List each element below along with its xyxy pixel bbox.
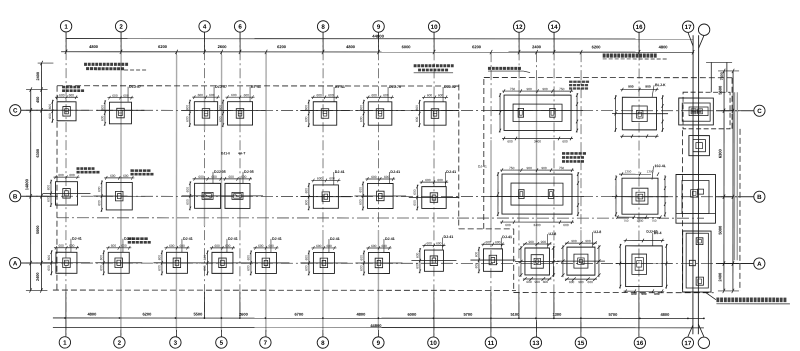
- grid bubble 6 top: [234, 21, 245, 32]
- svg-text:600: 600: [99, 265, 103, 271]
- grid bubble 1 bottom: [59, 337, 70, 348]
- svg-text:600: 600: [562, 140, 568, 144]
- svg-text:900: 900: [527, 166, 533, 170]
- footing DJ-01 grid1 row C: [44, 93, 89, 123]
- svg-text:600: 600: [426, 242, 432, 246]
- label grid10 B: [445, 170, 456, 187]
- annotation near grid1 B: [77, 167, 80, 170]
- gray double vertical right: [733, 92, 735, 260]
- horizontal grid axis lines A B C: [21, 109, 753, 112]
- svg-text:DJ-41: DJ-41: [330, 237, 340, 241]
- footing DJ-03 grid9 row C: [355, 93, 405, 127]
- label grid10 A: [442, 235, 453, 250]
- svg-text:10: 10: [430, 340, 437, 347]
- footing DJ-14 grid10 row B: [409, 178, 459, 210]
- svg-text:C: C: [757, 108, 762, 115]
- svg-text:600: 600: [436, 242, 442, 246]
- svg-text:750: 750: [510, 87, 516, 91]
- svg-text:14800: 14800: [24, 178, 29, 190]
- svg-text:5600: 5600: [718, 85, 723, 95]
- label DLJ-07 grid2 C: [128, 85, 141, 102]
- annotation near grid2 A: [128, 237, 131, 240]
- grid bubble 15 bottom: [575, 337, 586, 348]
- svg-text:DJ-41: DJ-41: [72, 237, 82, 241]
- svg-text:4: 4: [203, 24, 207, 31]
- svg-text:600: 600: [328, 93, 334, 97]
- svg-text:5000: 5000: [717, 225, 722, 235]
- svg-text:600: 600: [241, 175, 247, 179]
- svg-text:600: 600: [69, 173, 75, 177]
- svg-text:4800: 4800: [660, 312, 670, 317]
- svg-text:DLJ-07: DLJ-07: [215, 85, 227, 89]
- label grid9 B: [389, 170, 400, 183]
- svg-text:600: 600: [413, 200, 417, 206]
- svg-text:7: 7: [264, 340, 268, 347]
- svg-text:600: 600: [563, 223, 569, 227]
- svg-text:600: 600: [317, 176, 323, 180]
- svg-text:600: 600: [198, 175, 204, 179]
- footing DJ-03 grid8 row C: [300, 93, 350, 127]
- row bubble A left: [10, 257, 21, 268]
- footing DJ-16 grid16 row A: [616, 239, 673, 296]
- svg-text:600: 600: [47, 255, 51, 261]
- svg-text:DJ-41: DJ-41: [335, 170, 345, 174]
- svg-text:600: 600: [358, 199, 362, 205]
- footing grid17 row C double: [679, 98, 714, 125]
- svg-text:A: A: [757, 261, 762, 268]
- svg-text:9: 9: [377, 340, 381, 347]
- svg-text:BLJ-K: BLJ-K: [655, 83, 666, 87]
- svg-text:600: 600: [219, 105, 223, 111]
- svg-text:6000: 6000: [407, 312, 417, 317]
- svg-text:600: 600: [631, 292, 637, 296]
- combined footing SJ-12 grids12-13 row C: [492, 87, 583, 143]
- svg-text:600: 600: [425, 178, 431, 182]
- svg-text:600: 600: [326, 244, 332, 248]
- svg-text:600: 600: [358, 187, 362, 193]
- label grid16 B: [652, 164, 667, 180]
- svg-text:2400: 2400: [36, 72, 40, 80]
- svg-text:600: 600: [304, 105, 308, 111]
- svg-text:600: 600: [329, 176, 335, 180]
- svg-text:600: 600: [304, 116, 308, 122]
- annotation mid-right 3line: [562, 152, 565, 155]
- dashed boundary step right zone: [458, 85, 460, 229]
- footing DJ-14 grid9 row B: [354, 175, 406, 211]
- svg-text:5000: 5000: [36, 226, 40, 234]
- svg-text:600: 600: [48, 113, 52, 119]
- footing UJ-8 grid15 row A: [557, 239, 605, 284]
- svg-text:3400: 3400: [533, 223, 540, 227]
- svg-text:600: 600: [507, 139, 513, 143]
- footing DJ-41 grid10 row A: [411, 242, 456, 274]
- svg-text:6300: 6300: [718, 149, 723, 159]
- svg-text:600: 600: [359, 105, 363, 111]
- svg-text:600: 600: [359, 265, 363, 271]
- svg-text:DJ-41: DJ-41: [446, 170, 456, 174]
- svg-text:600: 600: [157, 265, 161, 271]
- dashed boundary outline left block: [57, 85, 459, 87]
- svg-text:600: 600: [371, 244, 377, 248]
- svg-text:600: 600: [316, 93, 322, 97]
- svg-text:600: 600: [121, 244, 127, 248]
- svg-text:600: 600: [438, 93, 444, 97]
- top dimension line total: [66, 38, 693, 40]
- svg-text:600: 600: [198, 93, 204, 97]
- svg-text:4800: 4800: [89, 44, 99, 49]
- intermediate axis line between B and A: [57, 217, 704, 219]
- svg-text:13: 13: [532, 340, 539, 347]
- label grid15 A: [592, 230, 601, 247]
- svg-text:600: 600: [58, 244, 64, 248]
- svg-text:600: 600: [526, 280, 532, 284]
- footing DJ-13 grid4 row B: [182, 175, 234, 211]
- svg-text:600: 600: [543, 280, 549, 284]
- svg-text:17: 17: [685, 24, 692, 31]
- svg-text:600: 600: [371, 93, 377, 97]
- svg-text:600: 600: [505, 223, 511, 227]
- svg-text:2400: 2400: [36, 273, 40, 281]
- label DJJ-02 grid10 C: [443, 85, 456, 102]
- label DLJ-07 grid4 C: [214, 85, 227, 102]
- dashed box around grid17 C: [683, 92, 730, 129]
- svg-text:2600: 2600: [239, 312, 249, 317]
- svg-text:600: 600: [371, 175, 377, 179]
- svg-text:600: 600: [186, 199, 190, 205]
- svg-text:600: 600: [588, 280, 594, 284]
- footing DJ-03 grid6 row C: [215, 93, 266, 127]
- svg-text:A: A: [13, 260, 18, 267]
- svg-text:600: 600: [268, 244, 274, 248]
- svg-text:10: 10: [431, 24, 438, 31]
- annotation top right bold: [603, 53, 606, 57]
- svg-text:600: 600: [474, 263, 478, 269]
- svg-text:2: 2: [119, 24, 123, 31]
- svg-text:600: 600: [110, 174, 116, 178]
- grid bubble 3 bottom: [170, 337, 181, 348]
- svg-text:2600: 2600: [218, 44, 228, 49]
- svg-text:900: 900: [571, 239, 577, 243]
- svg-text:600: 600: [97, 186, 101, 192]
- svg-text:DJ-41: DJ-41: [502, 235, 512, 239]
- svg-text:DJ-05: DJ-05: [244, 170, 254, 174]
- svg-text:6200: 6200: [158, 44, 168, 49]
- grid bubble blank bottom: [698, 337, 709, 348]
- svg-text:600: 600: [219, 116, 223, 122]
- svg-text:900: 900: [541, 240, 547, 244]
- small annotation grid1 C: [62, 86, 65, 89]
- thick gray axis overlays: [120, 55, 122, 330]
- svg-text:600: 600: [59, 93, 65, 97]
- grid bubble 10 bottom: [428, 337, 439, 348]
- svg-text:600: 600: [246, 255, 250, 261]
- svg-text:600: 600: [211, 175, 217, 179]
- svg-text:7400: 7400: [720, 72, 724, 80]
- svg-text:14: 14: [551, 24, 558, 31]
- svg-text:600: 600: [69, 244, 75, 248]
- svg-text:600: 600: [100, 105, 104, 111]
- svg-text:6200: 6200: [592, 44, 602, 49]
- svg-text:1: 1: [64, 24, 68, 31]
- svg-text:600: 600: [244, 93, 250, 97]
- svg-text:DLJ-70: DLJ-70: [389, 85, 401, 89]
- svg-text:600: 600: [415, 116, 419, 122]
- svg-text:DLJ-07: DLJ-07: [129, 85, 141, 89]
- svg-text:600: 600: [97, 200, 101, 206]
- svg-text:900: 900: [641, 292, 647, 296]
- svg-text:1350: 1350: [625, 169, 632, 173]
- svg-text:6000: 6000: [402, 44, 412, 49]
- svg-text:600: 600: [58, 173, 64, 177]
- annotation right of C combined footing: [569, 81, 572, 83]
- bottom dimension line segments: [53, 317, 704, 319]
- svg-text:3400: 3400: [534, 139, 541, 143]
- svg-text:600: 600: [569, 280, 575, 284]
- svg-text:600: 600: [359, 255, 363, 261]
- right total dim line: [732, 71, 734, 291]
- svg-text:600: 600: [316, 244, 322, 248]
- grid bubble 2 bottom: [114, 337, 125, 348]
- annotation mid 2: [488, 67, 491, 70]
- grid bubble 8 top: [317, 21, 328, 32]
- svg-text:600: 600: [225, 244, 231, 248]
- row bubble B right: [754, 191, 765, 202]
- svg-text:600: 600: [169, 244, 175, 248]
- svg-text:BT-41: BT-41: [335, 85, 345, 89]
- svg-text:600: 600: [427, 93, 433, 97]
- row bubble B left: [10, 191, 21, 202]
- svg-text:750: 750: [623, 219, 628, 223]
- svg-text:4800: 4800: [659, 44, 669, 49]
- svg-text:600: 600: [258, 244, 264, 248]
- svg-text:600: 600: [229, 175, 235, 179]
- footing grid17 row B double: [676, 174, 716, 223]
- grid bubble 10 top: [428, 21, 439, 32]
- grid bubble 1 top: [60, 21, 71, 32]
- svg-text:16: 16: [636, 340, 643, 347]
- svg-text:4800: 4800: [346, 44, 356, 49]
- svg-text:600: 600: [47, 265, 51, 271]
- svg-text:600: 600: [381, 244, 387, 248]
- svg-text:450: 450: [36, 97, 40, 103]
- svg-text:1: 1: [63, 340, 67, 347]
- right segment dim line: [723, 71, 725, 291]
- svg-text:900: 900: [585, 239, 591, 243]
- svg-text:600: 600: [231, 93, 237, 97]
- svg-text:600: 600: [359, 116, 363, 122]
- row bubble A right: [754, 258, 765, 269]
- svg-text:900: 900: [578, 280, 584, 284]
- svg-text:44800: 44800: [370, 323, 382, 328]
- svg-text:900: 900: [528, 240, 534, 244]
- svg-text:2400: 2400: [532, 44, 542, 49]
- svg-text:5500: 5500: [193, 312, 203, 317]
- label DJJ-05 grid4 B: [213, 170, 226, 183]
- svg-text:4800: 4800: [356, 312, 366, 317]
- left total dim line: [30, 90, 32, 291]
- svg-text:600: 600: [246, 265, 250, 271]
- svg-text:600: 600: [46, 196, 50, 202]
- svg-text:900: 900: [645, 85, 651, 89]
- svg-text:5700: 5700: [608, 312, 618, 317]
- footing UJ-8 grid13 row A: [515, 240, 560, 284]
- grid bubble 7 bottom: [260, 337, 271, 348]
- svg-text:DJ1-0: DJ1-0: [221, 151, 230, 155]
- svg-text:DJ-41: DJ-41: [385, 237, 395, 241]
- annotation top-left 2lines: [84, 63, 87, 66]
- footing grid16 row B: [612, 169, 668, 222]
- svg-text:DJ-41: DJ-41: [390, 170, 400, 174]
- svg-text:DJJ-05: DJJ-05: [214, 170, 226, 174]
- svg-text:17: 17: [684, 340, 691, 347]
- svg-text:600: 600: [185, 105, 189, 111]
- svg-text:900: 900: [535, 280, 541, 284]
- svg-text:DJ-41: DJ-41: [478, 165, 487, 169]
- grid bubble 11 bottom: [485, 337, 496, 348]
- footing DJ-14 grid8 row B: [300, 176, 351, 210]
- grid bubble 4 top: [199, 21, 210, 32]
- top dimension line segments: [61, 51, 694, 53]
- svg-text:8: 8: [321, 24, 325, 31]
- footing DJ-41 row A x66.5: [43, 244, 90, 276]
- svg-text:DJ-41: DJ-41: [183, 237, 193, 241]
- svg-text:5100: 5100: [510, 312, 520, 317]
- svg-text:600: 600: [304, 188, 308, 194]
- footing DJ-12 grid2 row B: [93, 174, 145, 212]
- svg-text:6700: 6700: [294, 312, 304, 317]
- annotation mid 1: [414, 64, 417, 67]
- svg-text:B: B: [757, 194, 762, 201]
- svg-text:DJ-41: DJ-41: [228, 237, 238, 241]
- grid bubble 17 top: [682, 21, 693, 32]
- svg-text:600: 600: [203, 265, 207, 271]
- row bubble C left: [10, 105, 21, 116]
- footing DJ-41 row A x118.8: [95, 244, 142, 276]
- footing DJ-41 row A x379: [355, 244, 402, 276]
- svg-text:4800: 4800: [87, 311, 97, 316]
- svg-text:10J-4L: 10J-4L: [655, 164, 667, 168]
- footing grid16 row C: [612, 85, 668, 138]
- svg-text:16: 16: [636, 24, 643, 31]
- label grid8 B: [334, 170, 345, 185]
- svg-text:600: 600: [112, 94, 118, 98]
- svg-text:DJ-41: DJ-41: [443, 235, 453, 239]
- svg-text:600: 600: [214, 244, 220, 248]
- svg-text:12: 12: [516, 24, 523, 31]
- svg-text:600: 600: [69, 93, 75, 97]
- label BT-41 grid8 C: [334, 85, 345, 102]
- svg-text:1200: 1200: [637, 219, 644, 223]
- svg-text:600: 600: [46, 185, 50, 191]
- left segment dim line: [40, 63, 42, 290]
- annotation bottom right with leader: [706, 293, 716, 300]
- svg-text:DJJ-02: DJJ-02: [444, 85, 456, 89]
- svg-text:600: 600: [415, 263, 419, 269]
- svg-text:4A-T: 4A-T: [238, 151, 245, 155]
- grid bubble blank top: [698, 24, 709, 35]
- svg-text:600: 600: [495, 240, 501, 244]
- svg-text:2400: 2400: [717, 272, 722, 282]
- grid bubble 9 bottom: [373, 337, 384, 348]
- svg-text:600: 600: [48, 104, 52, 110]
- vertical grid axis lines: [65, 32, 67, 336]
- svg-text:600: 600: [179, 244, 185, 248]
- svg-text:750: 750: [559, 87, 565, 91]
- svg-text:600: 600: [413, 189, 417, 195]
- svg-text:UJ-8: UJ-8: [593, 230, 601, 234]
- label DJ-05 grid6 B: [243, 170, 254, 183]
- svg-text:6200: 6200: [277, 44, 287, 49]
- svg-text:750: 750: [509, 166, 515, 170]
- svg-text:600: 600: [186, 187, 190, 193]
- label grid16 A: [653, 231, 662, 246]
- svg-text:B: B: [13, 194, 18, 201]
- grid bubble 5 bottom: [216, 337, 227, 348]
- label DLJ-70 grid9 C: [388, 85, 401, 102]
- grid bubble 9 top: [373, 21, 384, 32]
- svg-text:2: 2: [118, 340, 122, 347]
- svg-text:6300: 6300: [36, 149, 40, 157]
- svg-text:600: 600: [415, 105, 419, 111]
- small footing blank grid between C and B: [689, 136, 710, 156]
- grid bubble 16 bottom: [634, 337, 645, 348]
- right upper extra dim: [710, 62, 712, 92]
- svg-text:6200: 6200: [142, 312, 152, 317]
- svg-text:BT-41: BT-41: [251, 85, 261, 89]
- svg-text:8: 8: [321, 340, 325, 347]
- footing DJ-13 grid6 row B: [212, 175, 263, 209]
- svg-text:1300: 1300: [552, 312, 562, 317]
- footing DJ-41 row A x177: [153, 244, 200, 276]
- footing DJ-41 row A x324: [300, 244, 347, 276]
- bottom dimension line total: [53, 326, 704, 328]
- label grid16 C: [652, 83, 666, 97]
- grid bubble 14 top: [548, 21, 559, 32]
- svg-text:15: 15: [577, 340, 584, 347]
- svg-text:C: C: [13, 108, 18, 115]
- svg-text:600: 600: [185, 116, 189, 122]
- svg-text:600: 600: [157, 255, 161, 261]
- svg-text:750: 750: [651, 219, 656, 223]
- grid bubble 16 top: [633, 21, 644, 32]
- footing DJ-02 grid10 row C: [411, 93, 459, 127]
- combined footing SJ-12 grids12-13 row B: [490, 166, 584, 227]
- svg-text:3: 3: [174, 340, 178, 347]
- svg-text:44800: 44800: [372, 34, 384, 39]
- svg-text:11: 11: [488, 340, 495, 347]
- svg-text:600: 600: [99, 255, 103, 261]
- grid bubble 13 bottom: [530, 337, 541, 348]
- svg-text:5: 5: [220, 340, 224, 347]
- footing DJ-41 row A x222.5: [199, 244, 246, 276]
- svg-text:9: 9: [377, 24, 381, 31]
- svg-text:UJ-8: UJ-8: [548, 232, 556, 236]
- label grid11 A: [501, 235, 512, 249]
- svg-text:600: 600: [203, 255, 207, 261]
- footing DJ-03 grid4 row C: [181, 93, 230, 127]
- grid bubble 12 top: [513, 21, 524, 32]
- svg-text:600: 600: [111, 244, 117, 248]
- label grid13 A: [547, 232, 556, 248]
- grid bubble 8 bottom: [317, 337, 328, 348]
- dashed boundary vertical through right column: [681, 130, 683, 292]
- svg-text:600: 600: [304, 255, 308, 261]
- svg-text:600: 600: [474, 252, 478, 258]
- svg-text:600: 600: [123, 174, 129, 178]
- svg-text:600: 600: [304, 265, 308, 271]
- svg-text:750: 750: [559, 166, 565, 170]
- svg-text:6200: 6200: [472, 44, 482, 49]
